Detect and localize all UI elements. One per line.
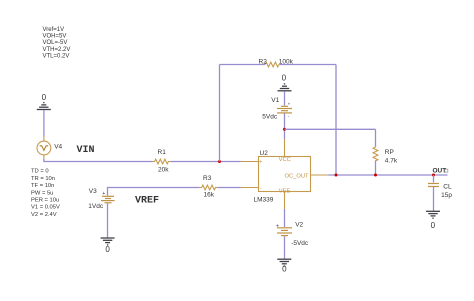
source V3 battery <box>101 196 115 203</box>
svg-text:V1 = 0.05V: V1 = 0.05V <box>31 205 60 211</box>
ground 0 below V2 <box>277 259 291 266</box>
wire output to CL <box>433 175 435 183</box>
wire ground to V1 <box>284 91 286 105</box>
svg-text:TR = 10n: TR = 10n <box>31 176 55 182</box>
wire V1 to junction <box>284 114 286 140</box>
pin U2 OC_OUT <box>311 174 329 176</box>
svg-text:0: 0 <box>431 221 436 230</box>
wire V3 to R3 <box>108 188 200 196</box>
svg-text:+: + <box>276 224 279 230</box>
svg-text:V3: V3 <box>89 188 97 195</box>
ground 0 above V4 (flipped) <box>37 103 51 110</box>
svg-text:V2: V2 <box>295 221 303 228</box>
svg-text:PW = 5u: PW = 5u <box>31 190 53 196</box>
svg-text:+: + <box>102 191 105 197</box>
ground 0 below V3 <box>101 238 115 245</box>
pin U2 VCC <box>284 139 286 157</box>
svg-text:R2: R2 <box>259 58 268 65</box>
svg-text:0: 0 <box>282 265 287 274</box>
svg-text:20k: 20k <box>158 166 169 173</box>
wire V4 to R1 <box>44 159 153 162</box>
svg-text:VIN: VIN <box>77 145 95 156</box>
source V4 <box>37 141 51 155</box>
svg-text:V1: V1 <box>271 97 279 104</box>
svg-text:U2: U2 <box>260 150 269 157</box>
wire R1 to junction <box>171 161 241 163</box>
svg-text:-5Vdc: -5Vdc <box>291 240 309 247</box>
svg-text:VOH=5V: VOH=5V <box>43 34 67 40</box>
svg-text:OC_OUT: OC_OUT <box>284 174 309 180</box>
resistor R1 <box>153 159 171 164</box>
node junction VCC <box>283 128 286 131</box>
node junction RP output <box>374 174 377 177</box>
svg-text:VCC: VCC <box>279 157 291 163</box>
node junction CL output <box>432 174 435 177</box>
wire VEE to V2 <box>284 209 286 227</box>
wire V3 to ground <box>107 203 109 237</box>
svg-text:V2 = 2.4V: V2 = 2.4V <box>31 212 57 218</box>
source V1 battery <box>277 106 292 113</box>
pin U2 IN+ <box>241 161 259 163</box>
svg-text:RP: RP <box>385 149 394 156</box>
svg-text:4.7k: 4.7k <box>385 158 398 165</box>
svg-text:OUT: OUT <box>433 168 447 175</box>
wire RP to output line <box>375 160 377 175</box>
svg-text:VTL=0.2V: VTL=0.2V <box>43 53 70 59</box>
pin U2 IN- <box>241 187 259 189</box>
wire output line <box>328 174 447 176</box>
svg-text:15p: 15p <box>441 192 452 199</box>
wire R2 to right vertical <box>279 64 336 66</box>
ground 0 below CL <box>426 211 440 218</box>
svg-text:PER = 10u: PER = 10u <box>31 198 59 204</box>
wire junction to RP <box>285 128 376 130</box>
op-amp comparator U2 LM339 <box>259 157 311 192</box>
source V2 battery <box>277 228 292 236</box>
svg-text:0: 0 <box>282 73 287 82</box>
capacitor CL <box>428 183 439 185</box>
ground 0 above V1 (flipped) <box>278 84 292 91</box>
text block V4 pulse parameters <box>31 169 60 218</box>
node junction at IN+ <box>218 160 221 163</box>
svg-text:CL: CL <box>443 183 452 190</box>
svg-text:-: - <box>260 186 262 192</box>
node junction R2 output <box>335 174 338 177</box>
svg-text:TF = 10n: TF = 10n <box>31 183 54 189</box>
svg-text:Vref=1V: Vref=1V <box>43 27 65 33</box>
svg-text:R3: R3 <box>203 175 212 182</box>
pin U2 VEE <box>284 192 286 210</box>
resistor RP <box>373 147 378 161</box>
wire down to RP <box>375 129 377 147</box>
svg-text:16k: 16k <box>204 191 215 198</box>
resistor R2 <box>265 62 279 67</box>
resistor R3 <box>200 185 218 190</box>
svg-text:V4: V4 <box>54 144 62 151</box>
wire ground to V4 <box>43 110 45 137</box>
svg-text:0: 0 <box>42 93 47 102</box>
source V4 pins <box>43 136 45 141</box>
wire to R2 <box>220 64 266 66</box>
wire R3 to U2 IN- <box>217 187 241 189</box>
svg-text:0: 0 <box>105 245 110 254</box>
svg-text:+: + <box>288 102 291 107</box>
svg-text:LM339: LM339 <box>254 197 274 204</box>
wire CL to ground <box>433 187 435 211</box>
svg-text:-: - <box>288 114 290 119</box>
svg-text:+: + <box>259 160 263 166</box>
wire junction up to R2 <box>219 65 221 162</box>
svg-text:R1: R1 <box>158 149 167 156</box>
text block simulation parameters <box>43 27 71 59</box>
svg-text:1Vdc: 1Vdc <box>88 203 104 210</box>
svg-text:VREF: VREF <box>135 196 159 207</box>
wire V2 to ground <box>284 236 286 258</box>
svg-text:5Vdc: 5Vdc <box>262 113 278 120</box>
wire down to output line <box>335 65 337 176</box>
svg-text:VOL=-5V: VOL=-5V <box>43 40 68 46</box>
svg-text:VTH=2.2V: VTH=2.2V <box>43 47 71 53</box>
svg-text:TD = 0: TD = 0 <box>31 169 49 175</box>
